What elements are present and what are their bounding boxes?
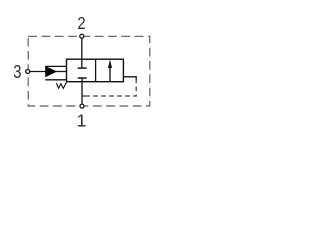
svg-text:1: 1 bbox=[76, 111, 86, 131]
wire port 3 (node to pilot poppet) bbox=[28, 71, 46, 73]
node port 3 bbox=[26, 70, 30, 74]
node port 1 bbox=[80, 104, 84, 108]
pilot channel rail bottom bbox=[45, 79, 66, 81]
seat bar top (closed position) bbox=[78, 67, 87, 69]
flow arrow (open position) bbox=[109, 66, 111, 83]
valve body (2-position envelope) bbox=[67, 59, 124, 81]
seat bar bottom (closed position) bbox=[78, 77, 87, 79]
pilot drain wire (solid stub at port 1 line) bbox=[82, 95, 89, 97]
pilot channel rail top bbox=[45, 65, 66, 67]
pilot drain wire (solid segment from body) bbox=[123, 77, 136, 80]
pilot poppet (filled triangle) bbox=[45, 66, 57, 77]
position divider bbox=[95, 59, 97, 81]
wire pilot tip to body bbox=[56, 71, 67, 73]
svg-text:3: 3 bbox=[13, 62, 21, 82]
wire port 1 (seat to node) bbox=[81, 78, 83, 106]
node port 2 bbox=[80, 34, 84, 38]
component envelope (dashed boundary) bbox=[28, 36, 150, 106]
pilot drain wire (dashed to port 1 line) bbox=[89, 79, 136, 97]
svg-text:2: 2 bbox=[77, 13, 85, 33]
spring bbox=[56, 82, 66, 89]
wire port 2 (node to seat) bbox=[81, 36, 83, 68]
